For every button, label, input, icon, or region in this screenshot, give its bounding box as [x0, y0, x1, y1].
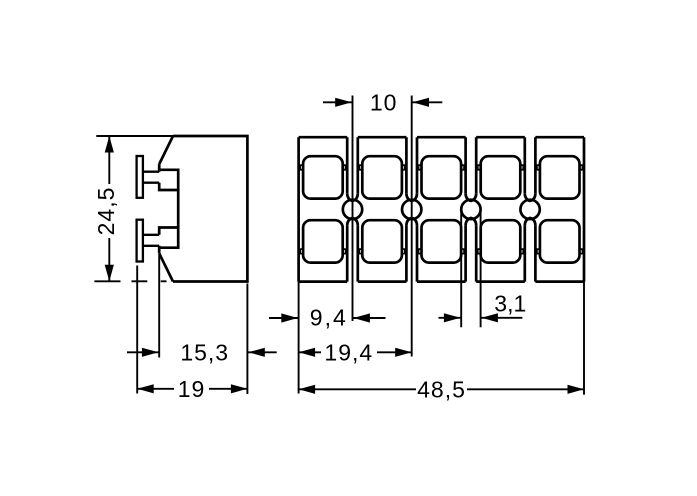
- pole 4 lower clamp opening: [481, 220, 521, 262]
- extension line pole1 left (9,4 / 19,4 / 48,5): [298, 282, 300, 394]
- pole 2 upper left notch: [359, 165, 362, 170]
- pole 4 block outline: [476, 137, 525, 281]
- dimension line 48,5: [299, 388, 416, 390]
- pole 5 lower left notch: [537, 249, 540, 254]
- pole 3 upper right notch: [461, 165, 464, 170]
- svg-text:3,1: 3,1: [494, 291, 526, 317]
- svg-text:19: 19: [178, 376, 206, 402]
- pole 5 lower right notch: [580, 249, 583, 254]
- pole 2 lower clamp opening: [362, 220, 402, 262]
- screw hole 2 circle: [402, 200, 421, 219]
- dimension line 24,5: [108, 136, 110, 184]
- pole 5 upper clamp opening: [540, 156, 580, 198]
- contact blade 2: [137, 220, 143, 262]
- screw hole 1 funnel bottom: [347, 218, 358, 226]
- screw hole 1 funnel top: [347, 193, 358, 201]
- pole 4 upper right notch: [520, 165, 523, 170]
- svg-text:10: 10: [370, 89, 398, 115]
- screw hole 4 circle: [520, 200, 539, 219]
- pole 2 lower right notch: [402, 249, 405, 254]
- svg-text:19,4: 19,4: [324, 339, 373, 365]
- pin stem 2: [143, 245, 159, 247]
- pole 2 lower left notch: [359, 249, 362, 254]
- pole 3 upper clamp opening: [422, 156, 462, 198]
- pole 1 lower left notch: [300, 249, 303, 254]
- pole 3 lower clamp opening: [422, 220, 462, 262]
- extension line blade (19): [136, 266, 138, 394]
- pole 1 upper right notch: [343, 165, 346, 170]
- pole 3 lower left notch: [419, 249, 422, 254]
- screw hole 4 funnel top: [525, 193, 536, 201]
- screw hole 3 funnel top: [466, 193, 477, 201]
- pin housing 2: [159, 228, 178, 254]
- screw hole 2 funnel bottom: [406, 218, 417, 226]
- pole 4 upper clamp opening: [481, 156, 521, 198]
- dimension line 19,4: [299, 351, 321, 353]
- pin stem 1: [143, 170, 159, 172]
- pole 5 upper left notch: [537, 165, 540, 170]
- dimension arrows 3,1: [439, 317, 462, 319]
- pin housing 1: [159, 164, 178, 190]
- housing connector edge: [177, 190, 180, 228]
- extension line pole5 right (48,5): [583, 282, 585, 395]
- dimension arrows 15,3: [127, 351, 159, 353]
- pole 4 upper left notch: [478, 165, 481, 170]
- extension line bottom dashed (24,5): [94, 280, 120, 282]
- screw hole 2 funnel top: [406, 193, 417, 201]
- svg-text:9,4: 9,4: [310, 305, 348, 331]
- screw hole 3 funnel bottom: [466, 218, 477, 226]
- pole 5 lower clamp opening: [540, 220, 580, 262]
- extension line housing (15,3): [158, 255, 160, 358]
- pole 3 upper left notch: [419, 165, 422, 170]
- svg-text:24,5: 24,5: [93, 187, 119, 236]
- extension line top (24,5): [96, 135, 173, 137]
- screw hole 1 circle: [343, 200, 362, 219]
- svg-text:15,3: 15,3: [180, 339, 229, 365]
- dimension arrows 9,4: [269, 317, 299, 319]
- extension line gap1 center (10 / 9,4): [352, 96, 354, 322]
- pole 4 lower left notch: [478, 249, 481, 254]
- dimension arrows 10: [323, 101, 353, 103]
- screw hole 4 funnel bottom: [525, 218, 536, 226]
- dimension line 19: [137, 388, 174, 390]
- pole 4 lower right notch: [520, 249, 523, 254]
- extension line gap2 center (10 / 19,4): [411, 96, 413, 357]
- svg-text:48,5: 48,5: [417, 376, 466, 402]
- pole 1 block outline: [299, 137, 348, 281]
- extension line body right (15,3 / 19): [246, 284, 248, 395]
- pole 3 block outline: [417, 137, 466, 281]
- pole 5 upper right notch: [580, 165, 583, 170]
- pole 3 lower right notch: [461, 249, 464, 254]
- pole 1 lower right notch: [343, 249, 346, 254]
- pole 1 upper left notch: [300, 165, 303, 170]
- pole 1 lower clamp opening: [303, 220, 343, 262]
- extension line hole3 right tangent (3,1): [480, 209, 482, 327]
- pole 2 upper right notch: [402, 165, 405, 170]
- bottom chamfer edge: [159, 253, 173, 281]
- top chamfer edge: [159, 136, 173, 164]
- contact blade 1: [137, 156, 143, 198]
- terminal body side view outline: [173, 136, 247, 282]
- pole 2 block outline: [358, 137, 407, 281]
- pole 1 upper clamp opening: [303, 156, 343, 198]
- pole 2 upper clamp opening: [362, 156, 402, 198]
- extension line hole3 left tangent (3,1): [460, 209, 462, 327]
- screw hole 3 circle: [461, 200, 480, 219]
- pole 5 block outline: [535, 137, 584, 281]
